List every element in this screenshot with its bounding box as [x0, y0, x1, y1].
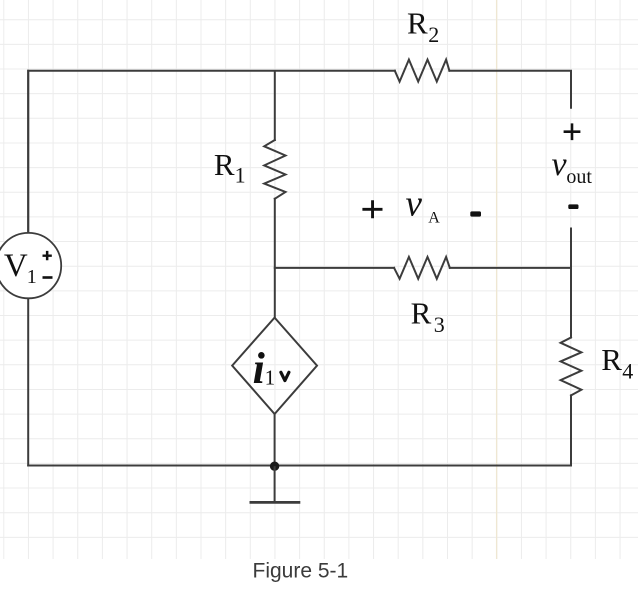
node label vA	[406, 183, 441, 226]
wire: top rail left segment (top-left corner to R2)	[28, 71, 395, 233]
wire: left rail below source V1 to bottom-left corner	[27, 298, 29, 465]
wire: right rail from - terminal down to R4	[570, 229, 572, 338]
ground	[250, 466, 301, 502]
wire: middle branch from top rail down to R1	[274, 72, 276, 140]
current source arrow (down chevron)	[281, 372, 289, 380]
dependent current source I1 (diamond)	[232, 318, 317, 414]
vout minus	[568, 204, 578, 209]
resistor R4	[561, 338, 582, 396]
svg-text:1: 1	[235, 162, 246, 187]
resistor R3	[394, 257, 450, 279]
svg-text:R: R	[411, 296, 432, 331]
svg-text:R: R	[407, 5, 428, 40]
wire: top of source V1	[27, 71, 29, 233]
highlighted grid line (beige)	[496, 0, 498, 559]
label R1	[214, 147, 246, 188]
node label vA minus	[470, 211, 481, 216]
label V1 inside source	[4, 248, 37, 288]
label R3	[411, 296, 445, 338]
V1 polarity plus	[43, 251, 52, 260]
wire: R4 to bottom-right corner	[570, 395, 572, 464]
wire: middle branch from R1 through node A junction to current source	[274, 199, 276, 318]
svg-text:Figure 5-1: Figure 5-1	[253, 560, 349, 583]
wire: bottom rail	[28, 465, 571, 467]
svg-text:V: V	[4, 248, 28, 284]
svg-text:R: R	[214, 147, 235, 182]
svg-text:out: out	[566, 166, 592, 188]
label i1 inside current source	[253, 344, 276, 393]
wire: current source bottom to bottom rail	[274, 414, 276, 466]
voltage source V1 (circle)	[0, 233, 61, 298]
resistor R1	[264, 140, 285, 199]
caption Figure 5-1	[253, 560, 349, 583]
svg-text:4: 4	[622, 358, 633, 383]
wire: R3 to right rail	[450, 267, 571, 269]
svg-text:A: A	[428, 210, 440, 227]
node label vA plus	[362, 200, 382, 218]
svg-text:1: 1	[265, 366, 276, 390]
svg-text:2: 2	[428, 22, 439, 47]
junction dot (node between current source and ground)	[270, 462, 279, 471]
svg-text:v: v	[552, 146, 568, 183]
vout plus	[564, 123, 581, 140]
svg-text:1: 1	[27, 266, 37, 288]
svg-text:R: R	[601, 342, 622, 377]
V1 polarity minus	[43, 276, 53, 279]
svg-text:3: 3	[434, 312, 445, 337]
node label vout	[552, 146, 593, 188]
svg-text:v: v	[406, 183, 423, 224]
label R2	[407, 5, 439, 47]
resistor R2	[395, 60, 450, 82]
wire: top rail right segment (R2 to top-right corner, down to + terminal)	[449, 71, 571, 108]
wire: node A row from middle branch to R3	[275, 267, 394, 269]
label R4	[601, 342, 633, 384]
